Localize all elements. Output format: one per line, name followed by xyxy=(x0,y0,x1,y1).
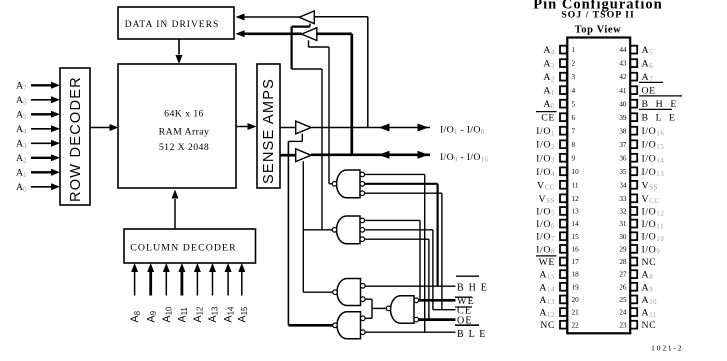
svg-text:A8: A8 xyxy=(642,270,654,281)
pin 26 (A9) xyxy=(630,283,637,291)
svg-text:25: 25 xyxy=(619,296,627,304)
svg-text:NC: NC xyxy=(540,320,555,331)
svg-text:21: 21 xyxy=(572,309,580,317)
output buffer U3 (sense amps to I/O1-8) xyxy=(280,127,296,129)
pin 24 (A11) xyxy=(630,308,637,316)
svg-text:15: 15 xyxy=(572,233,580,241)
svg-text:16: 16 xyxy=(572,245,580,253)
svg-text:Top View: Top View xyxy=(575,25,622,36)
pin 10 (I/O4) xyxy=(560,167,567,175)
pin 13 (I/O5) xyxy=(560,207,567,215)
wire G2.in1 to WE xyxy=(365,219,420,221)
svg-text:I/O1: I/O1 xyxy=(536,126,555,137)
column address input A8 xyxy=(134,272,136,296)
svg-text:I/O8: I/O8 xyxy=(536,244,555,255)
svg-text:I/O9: I/O9 xyxy=(642,244,661,255)
svg-text:A1: A1 xyxy=(16,168,26,179)
svg-text:NC: NC xyxy=(642,320,657,331)
pin 28 (NC) xyxy=(630,258,637,266)
pin 12 (VSS) xyxy=(560,194,567,202)
wire U1 input from I/O1-8 line xyxy=(314,16,368,18)
svg-text:A4: A4 xyxy=(16,124,27,135)
svg-text:19: 19 xyxy=(572,283,580,291)
wire column decoder up to RAM xyxy=(174,199,176,230)
svg-text:32: 32 xyxy=(619,208,627,216)
svg-text:I/O4: I/O4 xyxy=(536,167,555,178)
svg-text:30: 30 xyxy=(619,233,627,241)
svg-text:A6: A6 xyxy=(642,59,654,70)
svg-text:A12: A12 xyxy=(192,306,205,323)
column address input A10 xyxy=(165,272,167,296)
RAM array block xyxy=(118,64,236,188)
NAND gate G4 (output enable low byte) xyxy=(337,312,361,339)
svg-text:1021-2: 1021-2 xyxy=(651,344,683,353)
column address input A13 xyxy=(212,272,214,296)
NAND gate G2 (write enable low byte) xyxy=(337,216,361,244)
svg-text:I/O10: I/O10 xyxy=(642,232,665,243)
NAND gate G3 (output enable high byte) xyxy=(337,279,361,306)
svg-text:33: 33 xyxy=(619,195,627,203)
column decoder block xyxy=(124,229,256,263)
wire G1.in1 to BLE xyxy=(365,173,425,175)
svg-text:A4: A4 xyxy=(543,45,555,56)
pin 21 (A12) xyxy=(560,308,567,316)
svg-text:4: 4 xyxy=(572,87,576,95)
svg-text:B L E: B L E xyxy=(457,329,487,340)
wire U1 output to data in drivers xyxy=(244,16,299,18)
svg-text:23: 23 xyxy=(619,321,627,329)
svg-text:I/O2: I/O2 xyxy=(536,140,555,151)
svg-text:9: 9 xyxy=(572,154,576,162)
svg-text:I/O16: I/O16 xyxy=(642,126,665,137)
svg-text:VSS: VSS xyxy=(539,194,555,205)
svg-text:A7: A7 xyxy=(16,81,27,92)
svg-text:WE: WE xyxy=(539,257,555,268)
wire G2.in3 to OE xyxy=(365,238,429,240)
svg-text:I/O12: I/O12 xyxy=(642,206,665,217)
svg-text:43: 43 xyxy=(619,60,627,68)
svg-text:A12: A12 xyxy=(539,308,555,319)
input buffer U1 (I/O1-I/O8 to data in drivers) xyxy=(299,11,314,24)
svg-text:A14: A14 xyxy=(539,282,555,293)
svg-text:7: 7 xyxy=(572,127,576,135)
net BHE row xyxy=(365,285,455,287)
net BLE row xyxy=(365,331,455,333)
NAND gate G5 (CE/WE/OE combiner) xyxy=(390,296,414,323)
wire U2 input from I/O9-16 line (thick) xyxy=(317,32,352,35)
row decoder block xyxy=(60,68,90,205)
svg-text:12: 12 xyxy=(572,195,580,203)
net CE row xyxy=(433,309,456,311)
wire G4 output to U3 enable (thick) xyxy=(288,324,332,327)
svg-text:A10: A10 xyxy=(642,295,658,306)
svg-text:B H E: B H E xyxy=(457,283,488,294)
net OE row (thick) xyxy=(419,318,456,321)
svg-text:31: 31 xyxy=(619,220,627,228)
svg-text:27: 27 xyxy=(619,271,627,279)
wire G1 output to U2 enable xyxy=(329,183,332,185)
pin 32 (I/O12) xyxy=(630,207,637,215)
svg-text:I/O5: I/O5 xyxy=(536,206,555,217)
pin 44 (A5) xyxy=(630,46,637,54)
svg-text:A9: A9 xyxy=(642,282,654,293)
svg-text:A14: A14 xyxy=(223,306,236,323)
svg-text:A2: A2 xyxy=(16,153,27,164)
pin 9 (I/O3) xyxy=(560,154,567,162)
svg-text:41: 41 xyxy=(619,87,627,95)
svg-text:A11: A11 xyxy=(177,307,190,323)
pin 15 (I/O7) xyxy=(560,232,567,240)
svg-text:28: 28 xyxy=(619,258,627,266)
svg-text:A0: A0 xyxy=(16,182,27,193)
svg-text:A9: A9 xyxy=(145,310,158,322)
svg-text:I/O6: I/O6 xyxy=(536,219,555,230)
svg-text:512 X 2048: 512 X 2048 xyxy=(159,142,209,153)
pin 5 (A0) xyxy=(560,100,567,108)
svg-text:B L E: B L E xyxy=(642,113,678,124)
svg-text:ROW DECODER: ROW DECODER xyxy=(68,76,84,202)
svg-text:A1: A1 xyxy=(543,86,555,97)
svg-text:I/O1 - I/O8: I/O1 - I/O8 xyxy=(440,125,485,136)
wire RAM to sense amps xyxy=(236,126,249,128)
svg-text:I/O3: I/O3 xyxy=(536,153,555,164)
svg-text:A15: A15 xyxy=(236,306,249,323)
svg-text:35: 35 xyxy=(619,168,627,176)
svg-text:A13: A13 xyxy=(207,306,220,323)
svg-text:A5: A5 xyxy=(16,110,27,121)
svg-text:22: 22 xyxy=(572,321,580,329)
pin 19 (A14) xyxy=(560,283,567,291)
svg-text:36: 36 xyxy=(619,154,627,162)
pin 31 (I/O11) xyxy=(630,220,637,228)
svg-text:8: 8 xyxy=(572,141,576,149)
NAND gate G1 (write enable high byte) xyxy=(337,170,361,198)
pin 7 (I/O1) xyxy=(560,127,567,135)
svg-text:44: 44 xyxy=(619,46,627,54)
wire G3 output to U4 enable xyxy=(303,291,332,293)
svg-text:20: 20 xyxy=(572,296,580,304)
pin 42 (A7) xyxy=(630,73,637,81)
column address input A15 xyxy=(241,272,243,296)
svg-text:A15: A15 xyxy=(539,270,555,281)
svg-text:I/O7: I/O7 xyxy=(536,232,555,243)
svg-text:17: 17 xyxy=(572,258,580,266)
column address input A14 xyxy=(227,272,229,296)
column address input A12 xyxy=(196,272,198,296)
svg-text:A13: A13 xyxy=(539,295,555,306)
pin 18 (A15) xyxy=(560,270,567,278)
svg-text:VSS: VSS xyxy=(642,180,658,191)
svg-text:VCC: VCC xyxy=(642,194,660,205)
svg-text:39: 39 xyxy=(619,114,627,122)
svg-text:24: 24 xyxy=(619,309,627,317)
svg-text:B H E: B H E xyxy=(642,99,680,110)
pin 22 (NC) xyxy=(560,321,567,329)
pin 16 (I/O8) xyxy=(560,245,567,253)
wire G2 output to U1 enable xyxy=(303,229,332,231)
pin 27 (A8) xyxy=(630,270,637,278)
svg-text:I/O13: I/O13 xyxy=(642,167,665,178)
svg-text:14: 14 xyxy=(572,220,580,228)
data in drivers block xyxy=(118,7,234,39)
pin 41 (OE) xyxy=(630,86,637,94)
I/O1-I/O8 bidirectional line xyxy=(311,127,430,129)
svg-text:2: 2 xyxy=(572,60,576,68)
wire U2 output to data in drivers (thick) xyxy=(244,32,302,35)
svg-text:I/O9 - I/O16: I/O9 - I/O16 xyxy=(440,152,488,163)
svg-text:I/O15: I/O15 xyxy=(642,140,665,151)
pin 43 (A6) xyxy=(630,59,637,67)
svg-text:13: 13 xyxy=(572,208,580,216)
wire G5 output to G3/G4 inputs xyxy=(372,307,386,309)
svg-text:42: 42 xyxy=(619,73,627,81)
pin 23 (NC) xyxy=(630,321,637,329)
wire G1.in2 to BHE (thick) xyxy=(365,183,438,185)
svg-text:OE: OE xyxy=(642,86,656,97)
pin 37 (I/O15) xyxy=(630,140,637,148)
svg-text:6: 6 xyxy=(572,114,576,122)
svg-text:COLUMN DECODER: COLUMN DECODER xyxy=(130,243,237,254)
svg-text:CE: CE xyxy=(541,113,555,124)
svg-text:VCC: VCC xyxy=(537,180,555,191)
svg-text:I/O11: I/O11 xyxy=(642,219,665,230)
column address input A11 xyxy=(180,272,183,296)
svg-text:5: 5 xyxy=(572,100,576,108)
pin 14 (I/O6) xyxy=(560,220,567,228)
pin 34 (VSS) xyxy=(630,181,637,189)
wire G2.in2 to CE xyxy=(365,229,433,231)
pin 6 (CE) xyxy=(560,113,567,121)
I/O9-I/O16 bidirectional line (thick) xyxy=(311,153,430,156)
svg-text:64K x 16: 64K x 16 xyxy=(164,109,204,120)
svg-text:40: 40 xyxy=(619,100,627,108)
svg-text:A3: A3 xyxy=(543,59,555,70)
pin 8 (I/O2) xyxy=(560,140,567,148)
svg-text:38: 38 xyxy=(619,127,627,135)
svg-text:DATA IN DRIVERS: DATA IN DRIVERS xyxy=(125,20,219,30)
pin 29 (I/O9) xyxy=(630,245,637,253)
pin 20 (A13) xyxy=(560,296,567,304)
wire row decoder to RAM xyxy=(90,127,111,129)
svg-text:A10: A10 xyxy=(161,306,174,323)
column address input A9 xyxy=(149,272,152,296)
svg-text:34: 34 xyxy=(619,181,627,189)
svg-text:A3: A3 xyxy=(16,139,27,150)
pin 2 (A3) xyxy=(560,59,567,67)
svg-text:10: 10 xyxy=(572,168,580,176)
pin 38 (I/O16) xyxy=(630,127,637,135)
svg-text:A5: A5 xyxy=(642,45,654,56)
svg-text:SENSE AMPS: SENSE AMPS xyxy=(261,78,277,184)
svg-text:A2: A2 xyxy=(543,72,555,83)
pin 39 (B L E) xyxy=(630,113,637,121)
pin 3 (A2) xyxy=(560,73,567,81)
svg-text:I/O14: I/O14 xyxy=(642,153,665,164)
svg-text:3: 3 xyxy=(572,73,576,81)
wire data in drivers down to RAM xyxy=(178,39,180,55)
svg-text:1: 1 xyxy=(572,46,576,54)
svg-text:37: 37 xyxy=(619,141,627,149)
pin 11 (VCC) xyxy=(560,181,567,189)
node BHE label xyxy=(456,275,479,277)
pin 4 (A1) xyxy=(560,86,567,94)
net WE row (thick) xyxy=(419,299,456,302)
svg-text:A0: A0 xyxy=(543,99,555,110)
pin 17 (WE) xyxy=(560,258,567,266)
pin 36 (I/O14) xyxy=(630,154,637,162)
pin 40 (B H E) xyxy=(630,100,637,108)
package outline xyxy=(567,38,630,334)
pin 25 (A10) xyxy=(630,296,637,304)
svg-text:29: 29 xyxy=(619,245,627,253)
svg-text:NC: NC xyxy=(642,257,657,268)
node WE label xyxy=(455,296,472,298)
svg-text:RAM Array: RAM Array xyxy=(159,127,210,138)
svg-text:A6: A6 xyxy=(16,95,27,106)
svg-text:18: 18 xyxy=(572,271,580,279)
sense amps block xyxy=(257,64,280,188)
pin 1 (A4) xyxy=(560,46,567,54)
svg-text:11: 11 xyxy=(572,181,579,189)
pin 33 (VCC) xyxy=(630,194,637,202)
node CE label xyxy=(455,306,472,308)
pin 30 (I/O10) xyxy=(630,232,637,240)
svg-text:26: 26 xyxy=(619,283,627,291)
pin 35 (I/O13) xyxy=(630,167,637,175)
svg-text:A8: A8 xyxy=(129,310,142,322)
svg-text:SOJ / TSOP II: SOJ / TSOP II xyxy=(561,10,635,21)
wire G1.in3 to CE xyxy=(365,192,442,194)
input buffer U2 (I/O9-I/O16 to data in drivers) xyxy=(302,28,317,41)
svg-text:A11: A11 xyxy=(642,308,657,319)
output buffer U4 (sense amps to I/O9-16) xyxy=(280,154,296,157)
